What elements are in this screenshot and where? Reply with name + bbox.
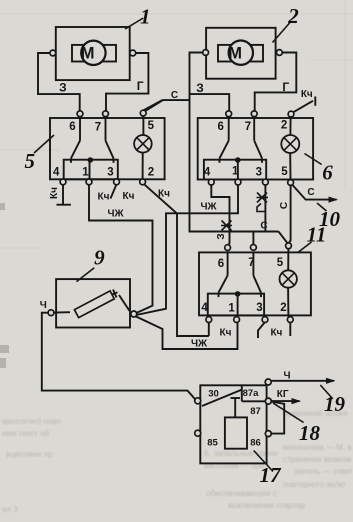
svg-text:87: 87 bbox=[250, 406, 261, 417]
svg-text:11: 11 bbox=[307, 223, 327, 247]
svg-text:ЧЖ: ЧЖ bbox=[200, 202, 217, 213]
svg-text:З: З bbox=[216, 233, 227, 239]
svg-text:М: М bbox=[228, 44, 242, 62]
svg-text:7: 7 bbox=[248, 257, 254, 269]
svg-text:странение возмож: странение возмож bbox=[283, 455, 352, 464]
svg-text:30: 30 bbox=[208, 389, 219, 400]
svg-text:4: 4 bbox=[204, 167, 211, 179]
svg-text:вцеплени пр: вцеплени пр bbox=[6, 450, 53, 459]
svg-text:6: 6 bbox=[69, 121, 75, 133]
svg-text:Кч: Кч bbox=[98, 192, 110, 203]
svg-text:3: 3 bbox=[256, 167, 262, 179]
svg-text:Ч: Ч bbox=[283, 371, 290, 382]
svg-text:Кч: Кч bbox=[49, 187, 60, 199]
svg-text:3: 3 bbox=[107, 167, 113, 179]
svg-text:1: 1 bbox=[232, 166, 239, 178]
svg-text:малcorrect пово: малcorrect пово bbox=[2, 417, 61, 426]
svg-text:3: 3 bbox=[256, 302, 262, 314]
svg-text:С: С bbox=[307, 187, 314, 198]
svg-text:5: 5 bbox=[277, 257, 284, 269]
svg-text:З: З bbox=[59, 81, 67, 95]
svg-text:Кч: Кч bbox=[220, 328, 232, 339]
svg-text:6: 6 bbox=[218, 258, 224, 270]
svg-text:ватель — ответ: ватель — ответ bbox=[295, 467, 353, 476]
svg-text:86: 86 bbox=[250, 438, 261, 449]
svg-text:5: 5 bbox=[148, 120, 155, 132]
svg-text:2: 2 bbox=[148, 167, 154, 179]
svg-text:9: 9 bbox=[94, 246, 105, 270]
svg-text:7: 7 bbox=[245, 121, 251, 133]
svg-text:Кч: Кч bbox=[270, 328, 282, 339]
svg-text:С: С bbox=[260, 221, 267, 232]
svg-text:87а: 87а bbox=[243, 388, 260, 399]
svg-text:4: 4 bbox=[201, 302, 208, 314]
svg-text:повторного вклю: повторного вклю bbox=[283, 480, 345, 489]
svg-text:выключение стартер: выключение стартер bbox=[228, 501, 306, 510]
svg-text:2: 2 bbox=[280, 302, 286, 314]
svg-text:С: С bbox=[279, 202, 290, 209]
svg-text:ЧЖ: ЧЖ bbox=[107, 209, 124, 220]
svg-text:Кч: Кч bbox=[158, 189, 170, 200]
svg-text:ол З: ол З bbox=[2, 505, 18, 514]
svg-text:18: 18 bbox=[299, 421, 321, 445]
svg-text:М: М bbox=[81, 44, 95, 62]
svg-text:6: 6 bbox=[217, 121, 223, 133]
svg-text:6: 6 bbox=[322, 161, 333, 185]
svg-text:5: 5 bbox=[281, 166, 288, 178]
svg-text:4: 4 bbox=[53, 167, 60, 179]
svg-text:Г: Г bbox=[282, 80, 289, 94]
svg-text:васспазм — при: васспазм — при bbox=[204, 461, 264, 470]
svg-text:Кч: Кч bbox=[301, 89, 313, 100]
svg-text:5: 5 bbox=[24, 149, 35, 173]
svg-text:7: 7 bbox=[95, 122, 101, 134]
svg-text:2: 2 bbox=[281, 120, 287, 132]
svg-text:1: 1 bbox=[228, 303, 235, 315]
svg-text:19: 19 bbox=[324, 392, 346, 416]
svg-text:Ч: Ч bbox=[40, 300, 47, 311]
svg-text:нем текст об: нем текст об bbox=[2, 429, 50, 438]
svg-text:17: 17 bbox=[260, 463, 283, 487]
svg-text:З: З bbox=[196, 81, 204, 95]
svg-text:1: 1 bbox=[140, 5, 151, 29]
svg-text:С: С bbox=[171, 90, 178, 101]
svg-text:85: 85 bbox=[207, 438, 218, 449]
svg-text:обеспечивающее с: обеспечивающее с bbox=[206, 489, 277, 498]
svg-text:1: 1 bbox=[82, 167, 89, 179]
svg-text:ЧЖ: ЧЖ bbox=[191, 339, 208, 350]
svg-text:Г: Г bbox=[137, 79, 144, 93]
svg-text:КГ: КГ bbox=[277, 389, 289, 400]
svg-text:2: 2 bbox=[287, 4, 299, 28]
svg-text:Кч: Кч bbox=[123, 191, 135, 202]
